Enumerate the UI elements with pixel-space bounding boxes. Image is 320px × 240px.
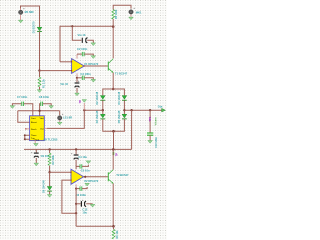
svg-text:C5 10n: C5 10n (81, 169, 90, 173)
supply arrow at C3 (91, 79, 96, 82)
op-amp U1 (71, 59, 85, 74)
capacitor C6 on U2 V- pin (75, 184, 87, 191)
node bridge bottom (112, 130, 115, 133)
svg-text:C6 100n: C6 100n (76, 193, 87, 197)
pin stub DIS (26, 128, 30, 130)
wire 555 out pin (44, 127, 47, 129)
capacitor C3 on U1 V- pin (76, 73, 93, 80)
wire tap down to 555 out (47, 110, 84, 128)
svg-text:D6 1N4148: D6 1N4148 (43, 180, 46, 193)
svg-text:Cont: Cont (31, 117, 36, 120)
wire 555 gnd pin (34, 140, 36, 144)
svg-text:MK1: MK1 (136, 10, 142, 14)
capacitor C12 (electrolytic) (76, 199, 93, 207)
svg-text:C2 100n: C2 100n (77, 47, 88, 51)
supply arrow at C6 (85, 183, 90, 186)
svg-text:Reset: Reset (31, 121, 37, 124)
capacitor C10 (147, 133, 153, 140)
svg-text:R2 100k: R2 100k (52, 154, 55, 164)
node out v2 (149, 109, 151, 111)
capacitor C5 on U2 V+ pin (76, 164, 88, 168)
node left tap corner (83, 109, 85, 111)
speaker LS1 (58, 111, 65, 122)
svg-text:Vin 10: Vin 10 (60, 82, 68, 86)
capacitor C4 (electrolytic) below U1 (75, 78, 80, 93)
wire bridge bottom to rail (113, 131, 115, 149)
svg-text:C7 100n: C7 100n (17, 95, 28, 99)
svg-text:T2 BC547: T2 BC547 (116, 173, 129, 177)
wire mid rail (24, 148, 132, 150)
svg-text:C8 100n: C8 100n (39, 95, 50, 99)
wire zener to junction (39, 32, 41, 71)
ground below M1 (18, 20, 23, 23)
svg-text:D3 1N4148: D3 1N4148 (96, 110, 99, 123)
svg-text:D4 1N4148: D4 1N4148 (118, 91, 121, 104)
wire junction to U2 +in (50, 171, 71, 173)
node U2 out (84, 176, 86, 178)
ground below MK1 (129, 17, 134, 20)
wire left tap to port (84, 109, 103, 111)
resistor R1 (38, 71, 41, 90)
wire U2 out to T2 base (84, 176, 108, 178)
port arrow Out (162, 108, 166, 112)
diode D6 (47, 187, 52, 195)
capacitor C8 (40, 102, 52, 116)
wire v2 down to C10 (149, 110, 151, 132)
capacitor C11 (electrolytic) on U2 V+ (71, 149, 79, 169)
node right tap (123, 109, 125, 111)
diode D4 (122, 96, 127, 101)
capacitor C7 (12, 102, 32, 116)
svg-text:U5 TLC555: U5 TLC555 (44, 137, 58, 141)
ground below C9 (34, 163, 39, 166)
wire feedback horizontal (60, 26, 113, 62)
node rail/T2 (112, 148, 115, 151)
wire reset jog (18, 111, 30, 122)
op-amp U2 (70, 169, 83, 184)
wire R5 top loop (113, 5, 131, 9)
node C1 tee (71, 25, 73, 27)
svg-text:R1 2.2k: R1 2.2k (42, 79, 45, 88)
wire junction to op-amp U1 +in (40, 70, 72, 72)
IC U5 TLC555 (30, 116, 45, 142)
diode D5 (122, 114, 127, 119)
wire riser down (75, 189, 77, 227)
ground below C4 (75, 93, 80, 96)
svg-text:TP1: TP1 (148, 116, 152, 121)
svg-text:Volume: Volume (154, 116, 157, 125)
svg-text:R5 100k: R5 100k (115, 9, 118, 19)
resistor R5 (112, 10, 115, 19)
node out v1 (130, 109, 132, 111)
ground at C8 (49, 106, 54, 109)
svg-text:LS1 8R: LS1 8R (63, 116, 72, 120)
svg-text:Disch: Disch (31, 129, 37, 131)
wire tap up stub (83, 103, 85, 110)
node bridge top (112, 88, 115, 91)
resistor R2 on rail (48, 148, 51, 172)
capacitor C9 (electrolytic) on rail (31, 149, 39, 163)
ground below D6 (47, 195, 52, 198)
wire D4 to node (123, 100, 125, 114)
ground below LS1 (57, 122, 62, 125)
wire to U1 -in (60, 61, 72, 63)
node rail/U2 branch (75, 148, 77, 150)
ground below C10 (148, 141, 153, 144)
wire out (124, 109, 163, 111)
svg-text:C4 10u: C4 10u (78, 155, 87, 159)
svg-text:Vin 10: Vin 10 (78, 33, 86, 37)
diode D2 (100, 96, 105, 101)
svg-text:M1 MIC: M1 MIC (25, 10, 34, 14)
svg-text:C10 100n: C10 100n (155, 137, 158, 148)
wire bottom run (76, 225, 113, 227)
supply arrow at C5 (86, 161, 91, 164)
wire T2 emitter down (112, 183, 114, 226)
wire mic top to corner (21, 6, 40, 27)
ground below 555 (34, 144, 39, 147)
svg-text:D5 1N4148: D5 1N4148 (118, 110, 121, 123)
wire junction down to D6 (49, 172, 51, 186)
node R2/D6 junction (48, 171, 50, 173)
svg-text:Out: Out (158, 104, 163, 108)
wire bridge bottom rail (103, 119, 125, 131)
port arrow at tap (82, 100, 87, 103)
wire THR-TRIG tie (25, 135, 30, 139)
svg-text:U2 OPA172: U2 OPA172 (84, 179, 99, 183)
wire VCC rail y=110.8 (18, 110, 60, 112)
node feedback/R5 junction (112, 25, 115, 28)
zener D1 on mic wire (37, 27, 42, 31)
microphone MK1 (129, 7, 136, 17)
wire T2 collector (112, 149, 114, 169)
wire U2 -in loop (62, 180, 76, 213)
wire C1 to arrow (87, 40, 93, 43)
node junction mic/R1/op-amp (38, 69, 40, 71)
svg-text:Out: Out (40, 128, 44, 131)
wire U1 out to T1 base (84, 65, 108, 67)
node emitter/bottom (112, 225, 115, 228)
microphone M1 (19, 7, 26, 20)
supply arrow at C2 (91, 56, 96, 59)
svg-text:Thres: Thres (31, 134, 37, 137)
svg-text:D1 BZX79: D1 BZX79 (33, 21, 36, 33)
wire bridge top rail (103, 89, 125, 95)
supply arrow at C12 (90, 204, 95, 207)
wire T1 emitter to bridge (112, 73, 114, 89)
node left tap (102, 109, 104, 111)
node riser/C12 (75, 203, 77, 205)
diode D3 (100, 114, 105, 119)
svg-text:TP: TP (115, 153, 119, 157)
ground below R1 (37, 90, 42, 93)
wire R5 bottom to T1 collector (112, 19, 114, 58)
resistor R6 (112, 226, 115, 239)
svg-text:TP: TP (78, 100, 82, 104)
svg-text:D2 1N4148: D2 1N4148 (96, 91, 99, 104)
capacitor C2 on U1 V+ pin (77, 52, 93, 59)
node feedback/riser (75, 212, 77, 214)
svg-text:10u: 10u (82, 211, 87, 215)
wire v1 down to mid rail corner (131, 110, 133, 149)
ground at C7 (10, 106, 15, 109)
supply arrow at C1 (91, 43, 96, 46)
green junction mark (113, 152, 115, 155)
wire C1 branch (72, 26, 81, 40)
svg-text:R6 10k: R6 10k (116, 230, 119, 239)
svg-text:T1 BC547: T1 BC547 (115, 72, 128, 76)
capacitor C1 (electrolytic) (82, 37, 88, 43)
node C8/rail (38, 110, 40, 112)
wire D2 to node (102, 100, 104, 114)
svg-text:C3 100n: C3 100n (80, 72, 91, 76)
